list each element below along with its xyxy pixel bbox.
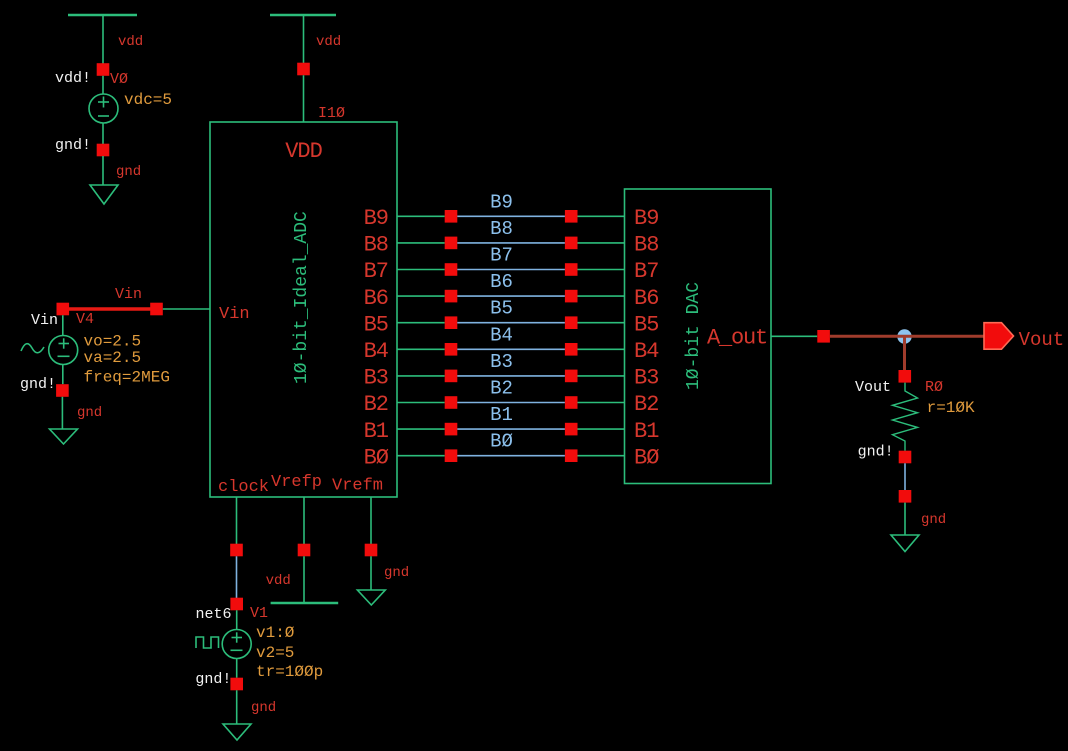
svg-text:Vin: Vin [115,286,142,303]
pin R0 bottom terminal (gnd!) [899,451,912,464]
svg-text:vdd!: vdd! [55,70,91,87]
wire ADC B1 stub [397,428,445,430]
svg-text:B1: B1 [490,404,513,426]
wire clock net (blue) [236,556,238,598]
pin B7 right square [565,263,578,276]
wire ADC B9 stub [397,215,445,217]
pin Vrefp square [298,544,311,557]
wire B9 to DAC stub [578,215,625,217]
svg-text:gnd: gnd [251,700,276,716]
pin B3 left square [445,370,458,383]
wire DAC A_out stub [771,335,817,337]
svg-text:A_out: A_out [707,326,767,351]
svg-text:B2: B2 [490,378,513,400]
pin B0 left square [445,449,458,462]
wire B1 to DAC stub [578,428,625,430]
ground symbol (V1 branch) [223,724,251,740]
svg-text:B3: B3 [490,351,513,373]
wire VDD pin to ADC box [303,75,305,122]
pin B9 right square [565,210,578,223]
pin B1 left square [445,423,458,436]
wire ADC clock pin down [236,497,238,544]
svg-text:B9: B9 [490,191,513,213]
svg-text:gnd: gnd [77,405,102,421]
svg-text:1Ø-bit DAC: 1Ø-bit DAC [684,282,704,390]
wire B2 net (blue) [457,402,565,404]
svg-text:B9: B9 [364,206,388,231]
svg-text:gnd: gnd [921,512,946,528]
svg-text:B4: B4 [364,339,389,364]
wire ADC B0 stub [397,455,445,457]
wire ADC B3 stub [397,375,445,377]
svg-text:freq=2MEG: freq=2MEG [84,369,170,387]
svg-text:B3: B3 [364,366,388,391]
svg-text:clock: clock [218,478,269,497]
svg-text:B5: B5 [634,312,658,337]
wire ADC Vrefm pin down [370,497,372,544]
wire B5 to DAC stub [578,322,625,324]
pin B6 right square [565,290,578,303]
wire B1 net (blue) [457,428,565,430]
svg-text:VØ: VØ [110,71,128,88]
pin B9 left square [445,210,458,223]
wire Vrefp to vdd rail [303,556,305,602]
wire B4 net (blue) [457,348,565,350]
power vdd rail (Vrefp) [271,602,339,605]
wire B7 net (blue) [457,269,565,271]
svg-text:r=1ØK: r=1ØK [927,399,975,417]
svg-text:B5: B5 [364,312,388,337]
pin V0 minus terminal (gnd!) [97,144,110,157]
svg-text:VDD: VDD [285,139,322,164]
svg-text:va=2.5: va=2.5 [84,349,142,367]
svg-text:BØ: BØ [634,445,659,470]
svg-text:B2: B2 [634,392,658,417]
svg-text:vo=2.5: vo=2.5 [84,333,142,351]
wire to ground symbol [904,503,906,535]
pin net6 / V1 plus terminal [230,598,243,611]
svg-text:B9: B9 [634,206,658,231]
svg-text:Vin: Vin [219,305,250,324]
wire ADC B2 stub [397,402,445,404]
pin B8 left square [445,237,458,250]
wire B0 net (blue) [457,455,565,457]
node Vin pin square [150,303,163,316]
pin V1 minus terminal (gnd!) [230,678,243,691]
svg-text:V4: V4 [76,311,94,328]
svg-text:B7: B7 [634,259,658,284]
ADC block I10 body [210,122,397,497]
ground symbol (V0 branch) [90,185,118,204]
wire ADC B8 stub [397,242,445,244]
pin B4 left square [445,343,458,356]
wire gnd net (blue) [904,463,906,490]
wire Vin net (red) [69,307,151,310]
svg-text:B1: B1 [364,419,389,444]
svg-text:v1:Ø: v1:Ø [256,624,295,642]
wire B3 to DAC stub [578,375,625,377]
wire B3 net (blue) [457,375,565,377]
pin B2 left square [445,396,458,409]
pin B7 left square [445,263,458,276]
svg-text:Vout: Vout [1019,329,1065,351]
svg-text:B8: B8 [634,233,658,258]
svg-text:B6: B6 [490,271,513,293]
wire B2 to DAC stub [578,402,625,404]
wire ADC Vrefp pin down [303,497,305,544]
wire V0 minus to ground [102,156,104,185]
svg-text:Vrefm: Vrefm [332,477,383,496]
svg-text:B1: B1 [634,419,659,444]
svg-text:1Ø-bit_Ideal_ADC: 1Ø-bit_Ideal_ADC [292,211,312,384]
pulse waveform glyph [196,637,219,648]
wire vdd rail to V0 plus pin [102,16,104,64]
svg-text:B2: B2 [364,392,388,417]
svg-text:V1: V1 [250,605,268,622]
pin clock square [230,544,243,557]
wire V1 minus to ground [236,690,238,724]
wire Vout net horizontal (dark red) [830,335,984,338]
svg-text:v2=5: v2=5 [256,644,294,662]
svg-text:gnd!: gnd! [20,376,56,393]
svg-text:vdd: vdd [266,573,291,589]
power vdd rail (I10 supply) [270,14,336,17]
svg-text:I1Ø: I1Ø [318,105,345,122]
svg-text:B3: B3 [634,366,658,391]
pin B2 right square [565,396,578,409]
svg-text:B4: B4 [490,324,513,346]
pin V4 minus terminal (gnd!) [56,384,69,397]
ground symbol (Vrefm) [357,590,385,605]
resistor R0 symbol [893,383,918,451]
pin Vrefm square [365,544,378,557]
svg-text:Vin: Vin [31,312,58,329]
pin ADC VDD (vdd!) [297,63,310,76]
svg-text:vdc=5: vdc=5 [124,91,172,109]
ground symbol (V4 branch) [50,429,78,444]
svg-text:RØ: RØ [925,379,943,396]
wire B4 to DAC stub [578,348,625,350]
pin B4 right square [565,343,578,356]
wire vdd rail to ADC VDD pin [303,16,305,63]
output port Vout arrow [984,323,1014,350]
wire B8 to DAC stub [578,242,625,244]
svg-text:gnd: gnd [116,164,141,180]
wire B0 to DAC stub [578,455,625,457]
pin gnd net square [899,490,912,503]
svg-text:net6: net6 [196,606,232,623]
wire B8 net (blue) [457,242,565,244]
svg-text:vdd: vdd [316,34,341,50]
pin V4 plus terminal [57,303,70,316]
pin A_out square [817,330,830,343]
wire Vout node to R0 (dark red) [903,336,906,370]
svg-text:B6: B6 [634,286,658,311]
svg-text:BØ: BØ [490,431,513,453]
wire Vin to ADC [163,308,210,310]
svg-text:gnd!: gnd! [195,671,231,688]
pin B5 right square [565,316,578,329]
power vdd rail (V0 branch) [68,14,137,17]
pin B0 right square [565,449,578,462]
wire B7 to DAC stub [578,269,625,271]
wire B6 net (blue) [457,295,565,297]
wire Vrefm to ground [370,556,372,590]
svg-text:Vrefp: Vrefp [271,473,322,492]
wire ADC B6 stub [397,295,445,297]
svg-text:BØ: BØ [364,445,389,470]
wire B6 to DAC stub [578,295,625,297]
pin B1 right square [565,423,578,436]
pin B8 right square [565,237,578,250]
wire B9 net (blue) [457,215,565,217]
svg-text:gnd: gnd [384,565,409,581]
pin B5 left square [445,316,458,329]
pin B6 left square [445,290,458,303]
svg-text:B7: B7 [364,259,388,284]
svg-text:B8: B8 [364,233,388,258]
wire ADC B4 stub [397,348,445,350]
junction dot Vout node [897,329,911,343]
pin V0 plus terminal (vdd!) [97,63,110,76]
ground symbol (R0 branch) [891,535,919,552]
pin R0 top terminal [899,370,912,383]
sine waveform glyph [21,344,44,353]
voltage source V1 symbol [222,610,251,677]
svg-text:B6: B6 [364,286,388,311]
svg-text:B5: B5 [490,298,513,320]
svg-text:tr=1ØØp: tr=1ØØp [256,663,323,681]
svg-text:Vout: Vout [855,379,891,396]
voltage source V0 symbol [89,76,118,144]
pin B3 right square [565,370,578,383]
wire V4 minus to ground [61,397,63,429]
wire B5 net (blue) [457,322,565,324]
svg-text:B7: B7 [490,245,513,267]
svg-text:vdd: vdd [118,34,143,50]
svg-text:B8: B8 [490,218,513,240]
svg-text:gnd!: gnd! [55,137,91,154]
DAC block body [625,189,772,484]
voltage source V4 symbol [49,315,78,384]
svg-text:B4: B4 [634,339,659,364]
svg-text:gnd!: gnd! [858,444,894,461]
wire ADC B7 stub [397,269,445,271]
wire ADC B5 stub [397,322,445,324]
